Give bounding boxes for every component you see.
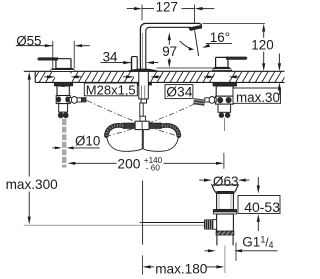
right valve body — [216, 86, 233, 96]
34 dimension line — [101, 62, 132, 64]
max.300 arrow up — [28, 72, 31, 80]
120 arrow down — [262, 63, 265, 71]
cross tick at rod/axis junction — [140, 222, 146, 224]
127 dimension line — [142, 8, 154, 10]
Ø63 arrow left-pointing — [238, 179, 246, 182]
40-53 arrow up — [257, 214, 260, 222]
max.300 arrow down — [28, 217, 31, 225]
spout mounting flange under counter — [135, 82, 152, 85]
left valve bottom couplers — [58, 112, 64, 118]
Ø55 extension line right — [73, 41, 75, 68]
200 arrow left-pointing — [67, 162, 75, 165]
M28x1,5 label box — [84, 83, 137, 96]
svg-text:max.180: max.180 — [155, 262, 208, 277]
right corrugated hose — [162, 125, 179, 135]
97 dimension line upper — [168, 40, 170, 45]
Ø34 label box — [165, 85, 193, 99]
counter left edge — [34, 71, 36, 82]
max.30 arrow up — [278, 82, 281, 90]
svg-text:- 60: - 60 — [146, 163, 161, 172]
right valve hex nut — [215, 96, 233, 104]
120 dimension line upper — [263, 32, 265, 38]
127 arrow right-pointing — [134, 7, 142, 10]
svg-text:40-53: 40-53 — [244, 199, 280, 215]
counter bottom line — [35, 81, 284, 83]
Ø55 arrow left-pointing — [74, 44, 82, 47]
svg-text:200: 200 — [117, 157, 140, 172]
hole for left valve — [55, 71, 71, 84]
right handle escutcheon base — [214, 68, 230, 69]
left hole dim arrow (right, pointing left) — [71, 75, 79, 78]
Ø55 extension line left — [52, 41, 54, 68]
120 arrow up — [262, 24, 265, 32]
max.30 label box — [233, 88, 281, 103]
swing arc (dash-dot) from left valve to right hose tip — [87, 101, 176, 136]
left valve body — [57, 86, 69, 96]
pivot rod connector block — [213, 220, 217, 230]
pull rod tube below — [140, 103, 143, 116]
16° leader underline — [206, 42, 232, 44]
right handle lever — [226, 57, 247, 60]
water stream line at 16 degrees — [195, 30, 199, 56]
drain body — [217, 214, 234, 231]
shank lower step — [141, 99, 147, 103]
34 arrow left-pointing — [146, 61, 154, 64]
right valve lower body — [218, 104, 231, 112]
svg-text:max.300: max.300 — [6, 177, 59, 192]
Ø10 arrow right-pointing — [55, 146, 62, 149]
drain plug bar — [217, 191, 234, 193]
left handle escutcheon base — [52, 69, 73, 70]
G1 1/4 arrow right-pointing — [208, 249, 216, 252]
16° angle arc with arrowhead — [180, 41, 192, 49]
97 dimension line lower — [168, 58, 170, 60]
svg-text:120: 120 — [251, 37, 273, 52]
200 dimension line left part — [75, 162, 116, 164]
97 arrow up — [168, 32, 171, 40]
left valve lower body — [59, 104, 68, 113]
right valve side outlet — [214, 98, 217, 103]
right hole dim arrow (left) — [207, 75, 215, 78]
left valve side outlet — [69, 98, 72, 103]
svg-text:97: 97 — [162, 44, 177, 59]
riser highlight line — [142, 33, 144, 68]
left hose nut — [123, 123, 135, 128]
left corrugated hose — [106, 125, 123, 135]
Ø55 dimension line — [16, 45, 53, 47]
G1 1/4 arrow left-pointing — [234, 249, 242, 252]
127 extension line left — [141, 5, 143, 21]
escutcheon-top reference line — [157, 67, 219, 69]
left valve mounting flange — [54, 82, 72, 86]
knurled joint nut — [204, 219, 213, 229]
40-53 arrow down — [257, 186, 260, 194]
Ø55 arrow right-pointing — [45, 44, 53, 47]
max.180 arrow left-pointing — [143, 265, 151, 268]
left handle lever — [38, 58, 58, 61]
200 extension line right — [223, 153, 225, 169]
spout hole dim arrow (right) — [150, 75, 158, 78]
drain thread band — [216, 231, 234, 235]
40-53 dimension line upper — [257, 177, 259, 186]
floor reference line (gray), left of drain — [24, 224, 204, 226]
tee fitting top stub — [140, 116, 145, 121]
svg-text:M28x1,5: M28x1,5 — [86, 82, 136, 97]
svg-text:16°: 16° — [210, 30, 230, 45]
drain tailpipe — [216, 235, 218, 245]
spout riser and horizontal arm — [140, 23, 201, 71]
left outlet nipple (hatched) — [82, 98, 87, 102]
tee fitting body — [135, 121, 149, 129]
drain center line — [224, 245, 226, 273]
Ø63 dimension line left tail — [199, 179, 204, 181]
Ø10 arrow left-pointing — [67, 146, 74, 149]
left valve body tick — [62, 85, 65, 87]
center rod below tee — [142, 130, 144, 149]
G1 1/4 dimension line — [242, 250, 277, 252]
right valve bottom couplers — [219, 113, 224, 118]
pop-up pull rod knob — [132, 57, 138, 71]
200 dimension line right part — [164, 162, 216, 164]
max.180 extension line left — [142, 255, 144, 274]
40-53 label box — [238, 196, 280, 214]
svg-text:Ø63: Ø63 — [213, 174, 239, 189]
spout threaded shank — [139, 72, 149, 99]
max.30 dimension line above counter — [278, 54, 280, 64]
counter top line (with left reference tick) — [24, 70, 285, 72]
Ø63 arrow right-pointing — [204, 179, 212, 182]
top reference line from spout tip — [202, 23, 265, 25]
max.180 dimension line right part — [207, 266, 217, 268]
right hole dim arrow (right) — [229, 75, 237, 78]
svg-text:max.30: max.30 — [236, 90, 280, 105]
drain upper cylinder — [217, 193, 234, 209]
max.30 arrow down — [278, 63, 281, 71]
svg-text:Ø10: Ø10 — [75, 133, 100, 148]
max.180 arrow right-pointing — [216, 265, 224, 268]
left handle body — [56, 59, 71, 69]
right hose nut — [149, 123, 161, 128]
hole for spout shank — [134, 71, 150, 84]
aerator at spout tip — [189, 26, 201, 31]
drain flange ring — [213, 210, 236, 212]
spout hole dim arrow (left) — [126, 75, 134, 78]
200 arrow right-pointing — [216, 162, 224, 165]
spout axis vertical reference — [142, 181, 144, 245]
right valve mounting flange — [213, 82, 237, 86]
horizontal pop-up rod — [143, 222, 204, 224]
97 arrow down — [168, 60, 171, 68]
left valve hex nut — [56, 96, 70, 104]
thin hose loop right — [142, 136, 178, 151]
drain top flange — [212, 185, 238, 194]
hole for right valve — [215, 71, 229, 84]
Ø10 dimension line — [74, 147, 100, 149]
34 extension line — [130, 58, 132, 71]
left hole dim arrow (left, pointing right) — [47, 75, 55, 78]
right outlet corrugated hose stub — [193, 98, 205, 106]
right valve stem — [224, 118, 226, 131]
120 dimension line lower — [263, 52, 265, 64]
max.300 dimension line — [28, 80, 30, 177]
right handle body — [216, 57, 228, 67]
countertop slab with hatching — [26, 71, 295, 82]
svg-text:Ø34: Ø34 — [166, 84, 192, 99]
34 arrow right-pointing — [123, 61, 131, 64]
127 arrow left-pointing — [195, 7, 203, 10]
G1 1/4 extension line — [235, 242, 237, 261]
127 extension line right — [194, 5, 196, 24]
swing arc (dash-dot) from right valve to left hose tip — [109, 104, 195, 136]
left valve extension stem (dashed gray) — [62, 119, 66, 168]
spout escutcheon (lens) — [129, 69, 158, 71]
svg-text:127: 127 — [156, 0, 178, 15]
thin hose loop left — [107, 136, 143, 151]
